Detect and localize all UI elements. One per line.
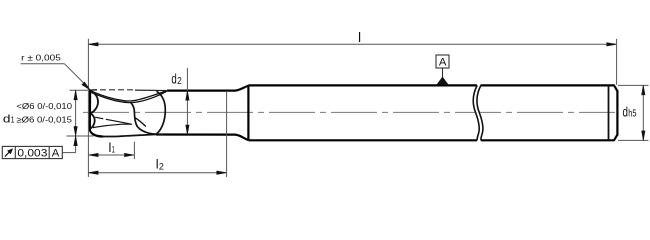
FCF arrow up to d1 extension: [74, 136, 77, 146]
break symbol white band: [473, 84, 483, 142]
flute V lower line: [91, 91, 167, 102]
d1 arrows: [74, 90, 77, 145]
break line left: [473, 85, 479, 140]
corner radius cap: [90, 89, 97, 92]
far flute C sweep: [156, 91, 166, 134]
head end tooth bulge lower: [90, 114, 95, 129]
top edge thin line to neck: [135, 89, 168, 91]
flute V upper line: [91, 91, 167, 101]
svg-text:l: l: [358, 29, 361, 45]
svg-text:r ± 0,005: r ± 0,005: [21, 53, 61, 63]
svg-text:0,003: 0,003: [17, 147, 47, 159]
svg-text:2: 2: [159, 162, 164, 173]
extension line left (l,l1,l2): [87, 39, 89, 177]
svg-text:1: 1: [11, 115, 15, 124]
dimension d2: [171, 68, 189, 135]
svg-text:d: d: [623, 104, 629, 120]
flute steep drop: [131, 103, 163, 135]
lower flute line a: [95, 117, 132, 124]
dimension dh5: [618, 85, 649, 140]
break line right: [477, 85, 483, 140]
r tolerance label: [21, 53, 91, 90]
svg-text:h5: h5: [628, 108, 636, 120]
extension line right end of tool: [616, 39, 618, 85]
dimension l1: [89, 140, 135, 159]
centerline (axis): [83, 111, 615, 113]
datum A flag: [436, 55, 449, 85]
shank outline: [248, 85, 617, 140]
head bottom outline: [103, 134, 157, 136]
dimension d1 line with leader to FCF: [63, 90, 94, 152]
svg-text:A: A: [52, 147, 60, 159]
neck (d2 section) outline: [156, 86, 248, 141]
svg-text:<Ø6 0/-0,010: <Ø6 0/-0,010: [16, 101, 72, 111]
dimension l line: [89, 43, 616, 45]
dimension l arrows: [89, 43, 617, 46]
svg-text:≥Ø6 0/-0,015: ≥Ø6 0/-0,015: [16, 114, 72, 124]
dimension l2: [89, 91, 227, 177]
svg-text:d: d: [3, 113, 11, 125]
svg-text:1: 1: [112, 144, 115, 155]
svg-text:d: d: [171, 72, 176, 87]
svg-text:2: 2: [177, 76, 182, 87]
shank end chamfer edge line: [608, 85, 610, 140]
flute branch sliver: [134, 118, 145, 127]
taper-shank boundary line: [247, 85, 249, 140]
lower flute line b: [93, 124, 131, 127]
head end tooth bulge upper: [90, 91, 98, 113]
feature control frame (circular runout): [2, 146, 62, 159]
d1 tolerance note line2: [3, 113, 73, 125]
cutter head left outline: [90, 90, 103, 136]
top envelope dashed line: [100, 89, 136, 91]
svg-text:A: A: [439, 57, 447, 69]
